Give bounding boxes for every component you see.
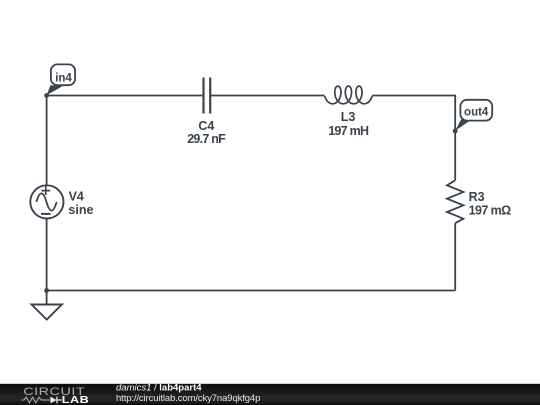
svg-text:LAB: LAB <box>62 395 89 405</box>
wire left vertical above V4 <box>46 96 48 186</box>
svg-text:damics1 / lab4part4: damics1 / lab4part4 <box>116 382 202 393</box>
wire L3 to top-right corner down to R3 top <box>372 96 455 181</box>
wire in4 node to C4 <box>47 95 203 97</box>
svg-text:in4: in4 <box>55 72 72 84</box>
svg-text:http://circuitlab.com/cky7na9q: http://circuitlab.com/cky7na9qkfg4p <box>116 393 260 404</box>
svg-text:197 mH: 197 mH <box>328 124 369 138</box>
voltage source V4 circle <box>30 185 63 218</box>
V4 value text <box>68 203 93 217</box>
L3 designator text <box>341 110 356 124</box>
logo resistor zigzag <box>22 397 51 403</box>
wire C4 to L3 <box>211 95 324 97</box>
in4 label box <box>51 64 75 85</box>
footer title text <box>116 382 202 393</box>
wire bottom horizontal <box>47 290 456 292</box>
resistor R3 zigzag <box>447 180 463 223</box>
svg-text:V4: V4 <box>69 190 84 204</box>
V4 plus sign <box>41 186 50 195</box>
in4 label pointer <box>47 85 63 95</box>
in4 label text <box>55 72 72 84</box>
svg-text:197 mΩ: 197 mΩ <box>469 203 512 217</box>
svg-text:R3: R3 <box>469 190 485 204</box>
node dot out4 <box>453 129 458 134</box>
capacitor C4 plates <box>204 78 211 114</box>
svg-text:sine: sine <box>68 203 93 217</box>
wire ground stem <box>46 291 48 305</box>
node dot ground <box>44 288 49 293</box>
CircuitLab logo CIRCUIT text <box>23 385 85 398</box>
footer url text <box>116 393 260 404</box>
logo diode arrow <box>50 397 56 404</box>
V4 minus sign <box>41 213 51 215</box>
out4 label box <box>460 100 492 121</box>
svg-text:L3: L3 <box>341 110 356 124</box>
svg-text:out4: out4 <box>464 107 489 119</box>
out4 label pointer <box>455 120 470 131</box>
ground triangle <box>32 305 62 320</box>
svg-text:C4: C4 <box>198 119 214 133</box>
R3 designator text <box>469 190 485 204</box>
inductor L3 coil <box>325 86 373 104</box>
out4 label text <box>464 107 489 119</box>
V4 sine wave <box>36 193 56 210</box>
svg-text:29.7 nF: 29.7 nF <box>187 132 226 146</box>
node dot in4 <box>44 93 49 98</box>
logo LAB text <box>62 395 89 405</box>
R3 value text <box>469 203 512 217</box>
V4 designator text <box>69 190 84 204</box>
wire R3 bottom to bottom-right corner <box>454 223 456 290</box>
C4 value text <box>187 132 226 146</box>
wire left vertical below V4 <box>46 219 48 291</box>
L3 value text <box>328 124 369 138</box>
C4 designator text <box>198 119 214 133</box>
